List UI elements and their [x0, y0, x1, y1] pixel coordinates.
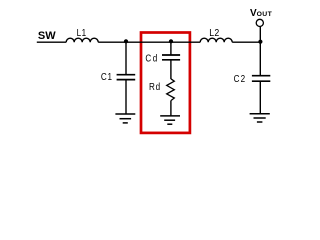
svg-text:Rd: Rd — [149, 81, 161, 92]
capacitor C1 — [117, 42, 136, 114]
wire node B to L2 — [171, 41, 200, 43]
node VOUT junction — [258, 40, 262, 44]
VOUT terminal circle — [256, 19, 263, 26]
C1 top plate — [117, 74, 136, 76]
wire node B down to Cd — [170, 42, 172, 55]
capacitor C2 — [252, 42, 270, 114]
wire SW to L1 — [37, 41, 66, 43]
Cd bottom plate — [162, 59, 180, 61]
C2 bottom plate — [252, 80, 270, 82]
svg-text:C2: C2 — [234, 73, 247, 84]
node B junction — [169, 39, 173, 43]
wire L1 to node A — [98, 41, 126, 43]
ground under C2 — [250, 114, 270, 122]
resistor Rd — [167, 79, 175, 101]
Cd top plate — [162, 54, 180, 56]
ground under C1 — [115, 114, 135, 123]
wire node A to node B — [126, 41, 171, 43]
wire node VOUT down to C2 — [259, 42, 261, 75]
node A junction — [124, 39, 128, 43]
wire up to VOUT terminal — [259, 27, 261, 43]
capacitor Cd — [162, 42, 180, 79]
inductor L1 — [66, 38, 98, 42]
inductor L2 — [200, 38, 232, 42]
svg-text:SW: SW — [38, 30, 56, 42]
svg-text:L1: L1 — [77, 27, 87, 38]
wire C1 to ground — [125, 80, 127, 114]
svg-text:Cd: Cd — [145, 53, 158, 64]
wire node A down to C1 — [125, 42, 127, 74]
C1 bottom plate — [117, 79, 136, 81]
wire L2 to node VOUT — [232, 41, 260, 43]
ground under Rd — [160, 116, 180, 124]
wire C2 to ground — [259, 81, 261, 114]
wire Cd to Rd — [170, 60, 172, 79]
svg-text:L2: L2 — [209, 27, 219, 39]
C2 top plate — [252, 75, 270, 77]
red highlight box around damping network Cd/Rd — [141, 33, 190, 133]
wire Rd to ground — [170, 101, 172, 116]
svg-text:C1: C1 — [101, 71, 113, 82]
